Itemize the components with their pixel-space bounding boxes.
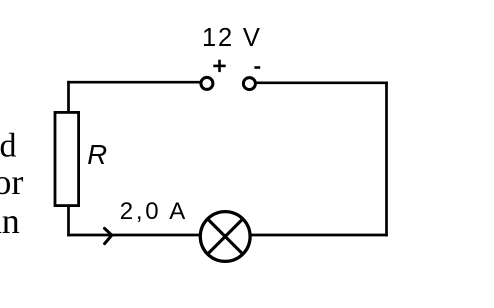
svg-text:R: R <box>87 139 107 170</box>
svg-text:12 V: 12 V <box>202 24 262 52</box>
svg-text:or: or <box>0 162 23 202</box>
svg-text:d: d <box>0 128 17 165</box>
svg-text:an: an <box>0 201 20 241</box>
svg-text:2,0 A: 2,0 A <box>120 198 188 225</box>
